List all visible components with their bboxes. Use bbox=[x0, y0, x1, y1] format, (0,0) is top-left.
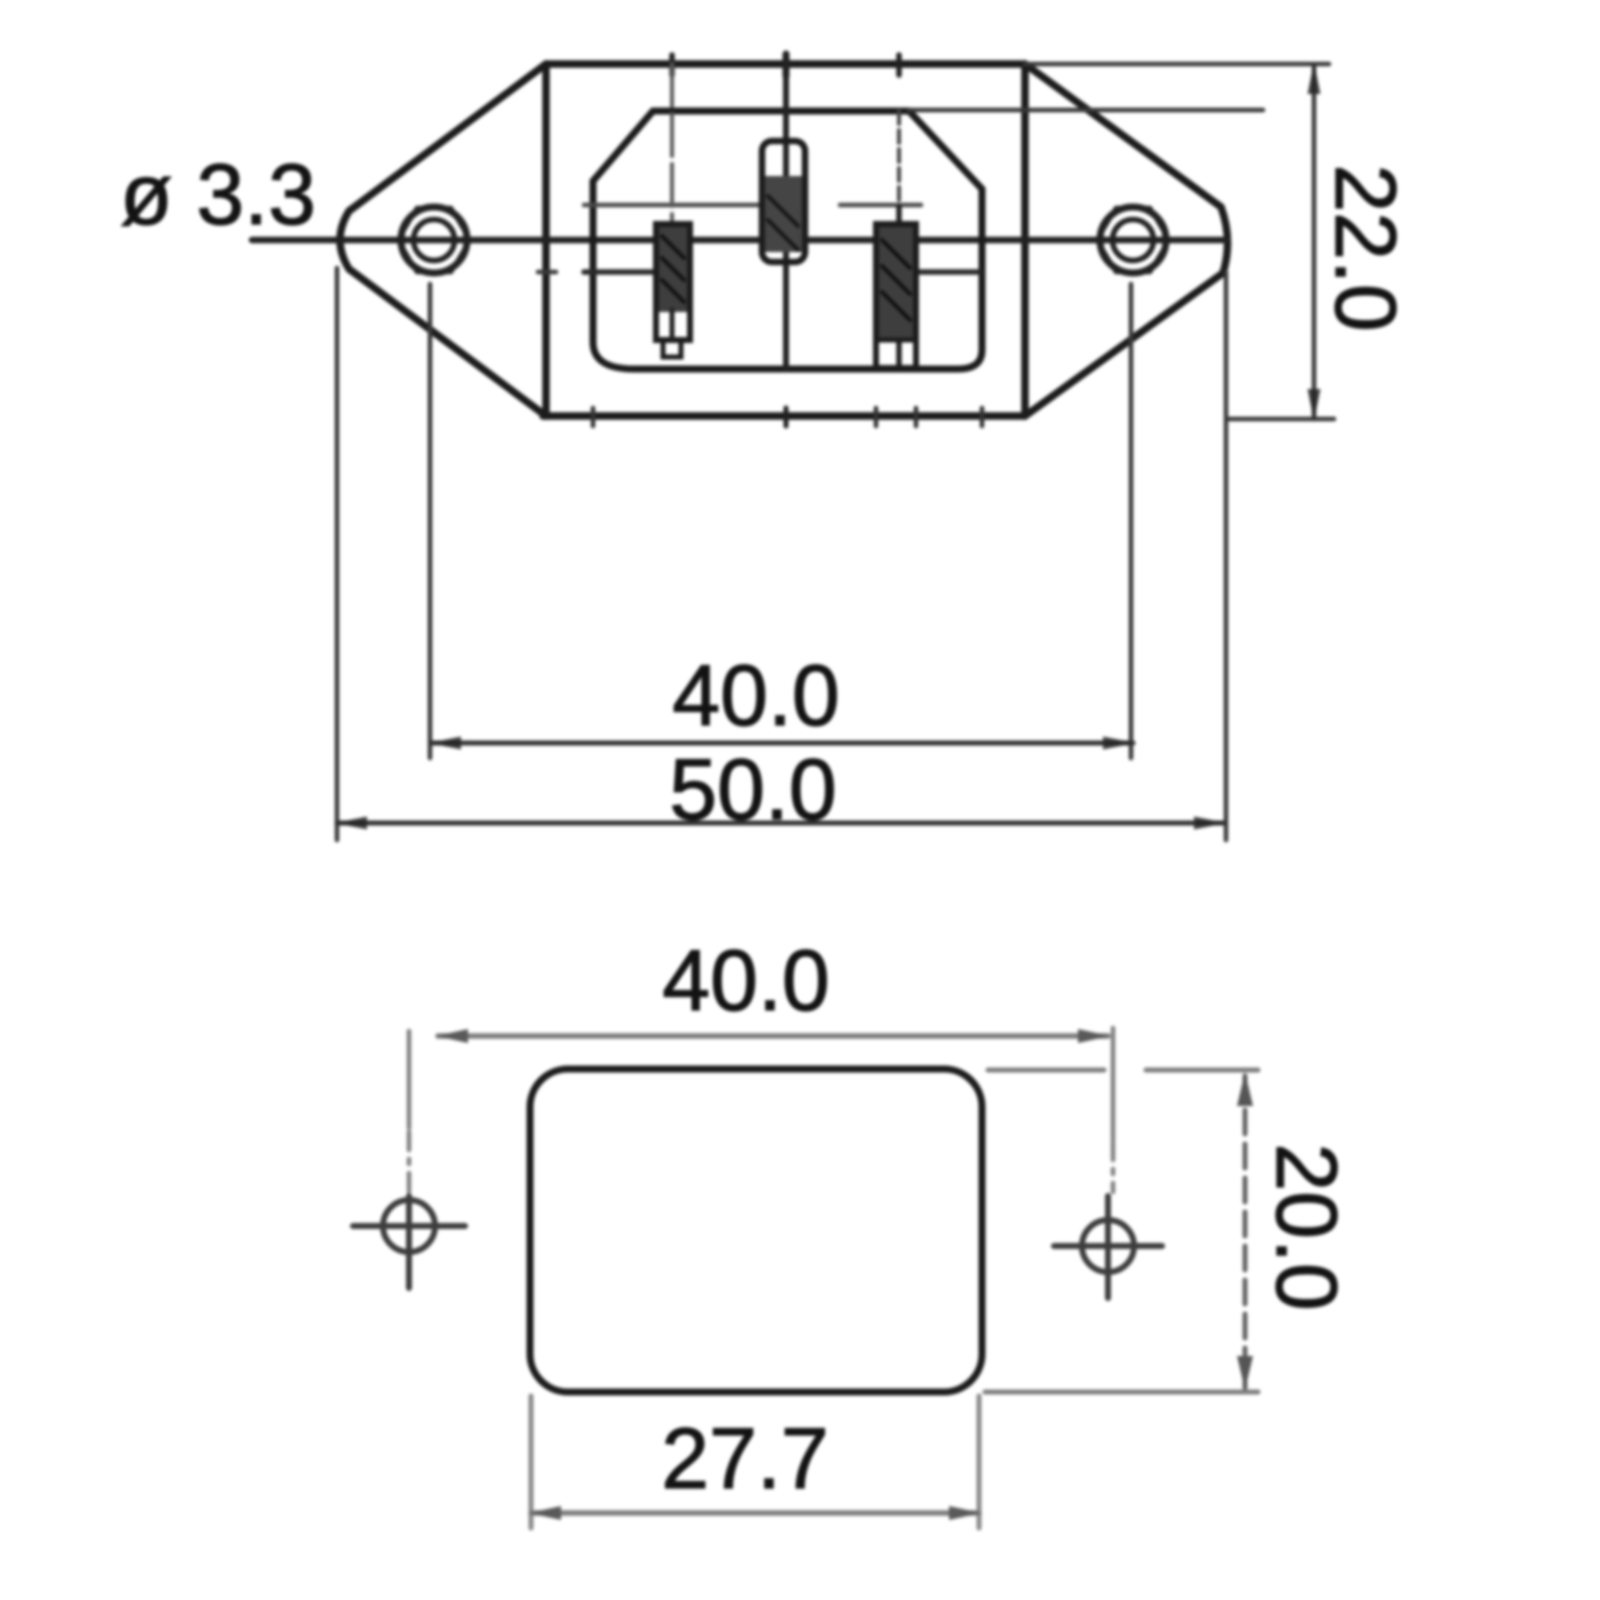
extension line from right hole bbox=[1129, 284, 1134, 758]
extension line from right ear tip bbox=[1224, 272, 1229, 840]
extension line from left hole bbox=[428, 284, 433, 758]
pin E (earth) bbox=[762, 141, 805, 262]
left hole position crosshair bbox=[353, 1196, 465, 1288]
dimension line 27.7 bbox=[529, 1506, 981, 1520]
svg-text:27.7: 27.7 bbox=[661, 1411, 828, 1507]
right hole position crosshair bbox=[1054, 1196, 1162, 1298]
right mounting ear bbox=[1025, 64, 1228, 416]
tick on body left edge bbox=[538, 270, 556, 275]
20.0 bottom extension line bbox=[985, 1390, 1258, 1395]
svg-text:50.0: 50.0 bbox=[669, 742, 836, 838]
dimension line 40.0 (top view) bbox=[429, 737, 1135, 750]
recess-edge extension line bbox=[909, 108, 1263, 113]
svg-text:22.0: 22.0 bbox=[1317, 164, 1413, 331]
IEC recess outline bbox=[593, 111, 982, 369]
dimension line 40.0 (cutout) bbox=[438, 1033, 1108, 1039]
right hole position extension line bbox=[1111, 1028, 1116, 1140]
27.7 left extension line bbox=[529, 1396, 534, 1528]
recess lower interior line bbox=[584, 269, 657, 275]
left mounting ear bbox=[340, 64, 546, 416]
left hole position extension line bbox=[407, 1031, 412, 1128]
right mounting hole (hex + circle) bbox=[1097, 207, 1169, 273]
pin N center line bbox=[896, 55, 902, 75]
recess upper interior line bbox=[584, 203, 763, 208]
left mounting hole (hex + circle) bbox=[398, 207, 470, 273]
pin L (live) bbox=[656, 224, 690, 357]
pin L center line bbox=[669, 55, 675, 75]
cutout rounded rectangle bbox=[530, 1069, 982, 1392]
svg-text:ø 3.3: ø 3.3 bbox=[120, 147, 316, 243]
dimension line 20.0 bbox=[1237, 1072, 1253, 1390]
20.0 top extension line bbox=[988, 1068, 1104, 1073]
svg-text:20.0: 20.0 bbox=[1258, 1143, 1354, 1310]
dimension line 50.0 bbox=[335, 817, 1226, 830]
extension line from left ear tip bbox=[335, 268, 340, 840]
dimension 22.0 bottom extension line bbox=[1228, 417, 1334, 422]
horizontal center line / leader from diameter label through holes bbox=[252, 237, 1227, 244]
svg-text:40.0: 40.0 bbox=[672, 648, 839, 744]
dimension 22.0 top extension line bbox=[1025, 62, 1329, 67]
27.7 right extension line bbox=[977, 1396, 982, 1528]
ticks on body bottom edge bbox=[591, 408, 596, 426]
dimension line 22.0 bbox=[1308, 62, 1321, 421]
pin N (neutral) bbox=[876, 224, 916, 368]
pin E center line bbox=[783, 54, 790, 76]
body outline (front view rectangle) bbox=[543, 64, 1025, 416]
svg-text:40.0: 40.0 bbox=[662, 933, 829, 1029]
